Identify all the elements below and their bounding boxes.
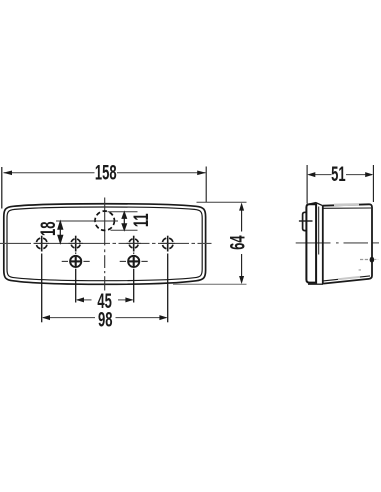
main view inner outline	[7, 207, 202, 281]
rim inner partial line	[318, 207, 320, 255]
svg-text:98: 98	[98, 307, 113, 331]
lens rim line	[322, 206, 324, 285]
dimension 11 arrow	[122, 212, 127, 230]
dimension 11 extension lines	[108, 211, 138, 213]
right screw hole	[120, 252, 148, 267]
body outline	[323, 204, 372, 283]
circle horizontal centerline / 18 extension line	[56, 220, 118, 222]
right side connector blob	[370, 257, 375, 263]
dimension 64	[173, 202, 250, 284]
dimension 51	[307, 162, 373, 204]
connector gray dash	[360, 259, 369, 261]
top gray highlight	[334, 203, 359, 206]
top hole dashed circle	[95, 211, 114, 230]
outer-right position cross	[161, 236, 175, 252]
mounting tab	[303, 212, 307, 230]
tab tick line	[299, 220, 313, 222]
lens top ridge	[307, 203, 323, 206]
body bottom inner line	[323, 276, 370, 281]
inner-left position cross	[69, 236, 83, 252]
dimension 98	[42, 254, 168, 332]
main view outer outline	[4, 204, 206, 285]
dimension 45	[76, 269, 134, 313]
inner-right position cross	[127, 236, 141, 252]
vertical centerline main view	[104, 198, 106, 291]
svg-text:158: 158	[95, 160, 117, 184]
lens front face	[306, 204, 316, 282]
horizontal centerline main view	[0, 242, 212, 244]
svg-text:11: 11	[129, 213, 153, 227]
svg-text:18: 18	[36, 221, 60, 236]
outer-left position cross	[35, 236, 49, 252]
dimension 158	[2, 160, 206, 208]
svg-text:64: 64	[225, 235, 249, 250]
svg-text:51: 51	[331, 162, 346, 186]
left screw hole	[62, 252, 90, 267]
rim bottom line	[308, 283, 323, 285]
body top inner line	[323, 207, 371, 209]
bottom gray highlight	[338, 277, 360, 279]
small gray dot	[359, 269, 361, 271]
side view horizontal centerline	[296, 242, 379, 244]
dimension 18 arrow	[58, 221, 63, 243]
